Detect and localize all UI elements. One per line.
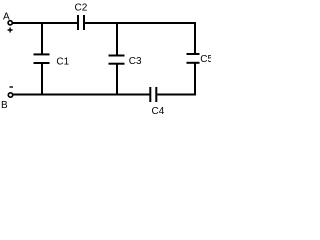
wire right rail top bbox=[194, 22, 196, 54]
capacitor C5 bbox=[187, 54, 214, 65]
capacitor C3 bbox=[109, 56, 143, 68]
svg-text:B: B bbox=[1, 100, 8, 111]
wire top left bbox=[13, 22, 78, 24]
svg-text:C5: C5 bbox=[200, 54, 211, 65]
capacitor C1 bbox=[34, 54, 70, 67]
wire C1 branch bottom bbox=[41, 64, 43, 96]
svg-text:C3: C3 bbox=[129, 56, 142, 67]
svg-text:C2: C2 bbox=[75, 3, 88, 14]
wire right rail bottom bbox=[194, 63, 196, 95]
wire top right bbox=[85, 22, 197, 24]
wire C3 branch bottom bbox=[116, 64, 118, 95]
svg-text:C1: C1 bbox=[56, 57, 69, 68]
wire bottom right bbox=[157, 94, 196, 96]
capacitor C4 bbox=[150, 87, 164, 117]
node B bbox=[1, 87, 13, 111]
wire C1 branch top bbox=[41, 22, 43, 55]
node A bbox=[3, 12, 13, 33]
wire C3 branch top bbox=[116, 22, 118, 56]
capacitor C2 bbox=[75, 3, 88, 31]
svg-text:C4: C4 bbox=[152, 106, 165, 117]
wire bottom left bbox=[13, 94, 149, 96]
